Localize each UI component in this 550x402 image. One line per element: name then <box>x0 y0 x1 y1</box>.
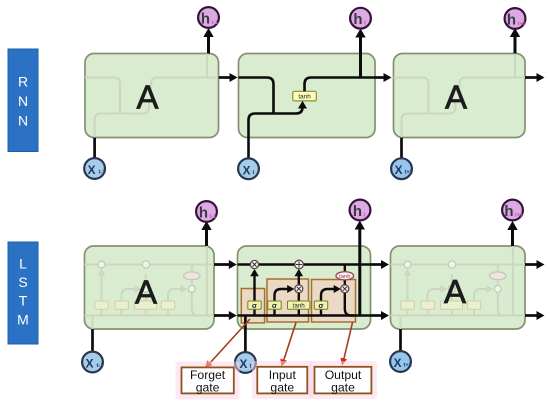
output gate highlight rect <box>312 280 356 323</box>
node X(t) top <box>238 158 259 179</box>
wire input gate sigma branch <box>275 285 295 316</box>
svg-text:T: T <box>19 293 28 309</box>
svg-text:t: t <box>364 21 366 27</box>
wire cell-state input into A5 <box>214 260 237 269</box>
tanh gate box (candidate) <box>288 301 310 309</box>
node h(t-1) top <box>198 7 219 28</box>
RNN cell box A1 (left) <box>85 54 219 138</box>
svg-text:tanh: tanh <box>293 302 306 309</box>
sigma gate box (forget) <box>248 301 261 310</box>
svg-text:t+1: t+1 <box>405 170 413 176</box>
svg-text:X: X <box>394 356 402 370</box>
svg-text:σ: σ <box>318 301 323 310</box>
wire input product up to add node <box>295 269 304 285</box>
svg-text:A: A <box>444 273 466 310</box>
svg-text:A: A <box>445 79 467 116</box>
ghost wiring inside A6 <box>391 246 526 329</box>
svg-text:t+1: t+1 <box>518 21 526 27</box>
pointwise multiply node on cell line (forget) <box>250 260 258 268</box>
input gate highlight rect <box>267 279 309 322</box>
svg-text:h: h <box>201 11 210 28</box>
node h(t+1) bottom <box>502 200 523 221</box>
RNN cell box A2 (middle) <box>239 54 376 138</box>
svg-text:t+1: t+1 <box>515 213 523 219</box>
wire X(t-1) into A4 <box>91 329 94 352</box>
ghost sigma boxes in A4 <box>95 301 175 309</box>
svg-text:t-1: t-1 <box>97 363 104 369</box>
svg-text:X: X <box>88 163 96 177</box>
pointwise add node on cell line <box>295 260 304 269</box>
wire inside A2: tanh output to the right <box>305 78 376 92</box>
wire A4 up to h(t-1) bottom row <box>201 221 211 246</box>
wire A6 up to h(t+1) bottom row <box>507 221 517 246</box>
wire A5 cell state out to A6 <box>371 260 390 269</box>
node X(t-1) top <box>84 158 105 179</box>
node X(t-1) bottom <box>82 352 103 373</box>
wire forget gate branch <box>250 269 259 316</box>
wire A6 cell state out <box>525 260 545 269</box>
RNN cell box A3 (right) <box>394 54 526 138</box>
wire h(t-1) input into A2 <box>219 73 238 82</box>
wire cell state line across A5 <box>238 263 371 266</box>
svg-text:L: L <box>19 256 27 272</box>
LSTM cell box A6 (right) <box>391 246 526 329</box>
svg-text:tanh: tanh <box>298 93 311 100</box>
wire tanh oval to output product <box>344 280 346 285</box>
annotation arrow to Input gate label <box>280 323 296 367</box>
svg-text:X: X <box>239 357 247 371</box>
wire hidden state line across A5 <box>238 314 371 317</box>
Forget gate label box <box>182 367 234 394</box>
svg-text:R: R <box>18 74 28 90</box>
wire A5 hidden out to A6 <box>371 311 390 320</box>
svg-text:X: X <box>243 163 251 177</box>
wire branch up to h(t) bottom row <box>355 221 365 316</box>
ghost wiring inside A1 <box>85 54 219 138</box>
svg-text:X: X <box>395 163 403 177</box>
Output gate label box <box>315 367 372 395</box>
node X(t+1) top <box>391 158 413 179</box>
svg-text:N: N <box>18 93 28 109</box>
ghost sigma boxes in A6 <box>401 301 481 309</box>
wire x(t) entry into A5 <box>244 316 247 353</box>
Input gate label box <box>257 367 307 395</box>
LSTM row label tab <box>8 242 38 344</box>
pink halo behind labels <box>176 361 378 400</box>
svg-text:N: N <box>18 113 28 129</box>
wire inside A2: x(t) path up into tanh <box>249 101 308 158</box>
LSTM cell box A4 (left) <box>85 246 215 329</box>
svg-text:t-1: t-1 <box>210 214 217 220</box>
sigma gate box (output) <box>314 301 327 310</box>
ghost op circles in A6 <box>404 261 506 293</box>
svg-text:X: X <box>86 357 94 371</box>
wire hidden-state input into A5 <box>214 311 237 320</box>
forget gate highlight rect <box>241 289 264 323</box>
node h(t+1) top <box>505 8 526 29</box>
node h(t-1) bottom <box>196 201 217 222</box>
wire A3 up to h(t+1) <box>510 28 520 54</box>
svg-text:gate: gate <box>196 381 220 395</box>
node h(t) bottom <box>350 200 371 221</box>
node h(t) top <box>350 8 371 29</box>
tanh layer box in A2 <box>293 91 317 101</box>
RNN row label tab <box>8 49 38 152</box>
svg-text:t: t <box>253 170 255 176</box>
svg-text:tanh: tanh <box>339 274 350 280</box>
svg-text:M: M <box>17 312 29 328</box>
svg-text:A: A <box>136 79 158 116</box>
sigma gate box (input) <box>268 301 281 310</box>
svg-text:h: h <box>353 203 362 220</box>
wire X(t+1) into A3 <box>400 138 403 159</box>
svg-text:t: t <box>364 213 366 219</box>
svg-text:A: A <box>135 274 157 311</box>
wire A2 output to A3 <box>375 73 392 82</box>
wire cell state down into tanh oval <box>344 265 346 272</box>
ghost wiring inside A4 <box>85 246 246 352</box>
ghost wiring inside A3 <box>394 54 526 138</box>
wire A6 hidden out <box>525 311 545 320</box>
pointwise multiply node (input) <box>295 285 303 293</box>
annotation arrow to Forget gate label <box>205 319 250 368</box>
tanh oval (cell state squashing) <box>336 272 354 280</box>
svg-text:h: h <box>504 203 513 220</box>
wire candidate tanh branch <box>298 293 300 316</box>
annotation arrow to Output gate label <box>340 323 352 366</box>
wire inside A2: previous state path curving down <box>239 78 274 114</box>
ghost op circles in A4 <box>98 261 200 293</box>
wire A1 up to h(t-1) <box>203 28 213 54</box>
wire output gate sigma branch <box>321 285 341 316</box>
wire branch up to h(t) <box>355 29 365 78</box>
svg-text:t: t <box>250 364 252 370</box>
svg-text:t-1: t-1 <box>212 20 219 26</box>
svg-text:h: h <box>507 12 516 29</box>
svg-text:h: h <box>353 11 362 28</box>
pointwise multiply node (output) <box>341 285 349 293</box>
svg-text:gate: gate <box>270 380 294 394</box>
svg-text:gate: gate <box>331 380 355 394</box>
wire output product down to hidden line <box>345 293 354 316</box>
wire X(t-1) into A1 <box>93 138 96 159</box>
LSTM cell box A5 (middle) <box>238 246 371 329</box>
svg-text:t+1: t+1 <box>404 363 412 369</box>
svg-text:S: S <box>18 274 27 290</box>
svg-text:σ: σ <box>272 301 277 310</box>
svg-text:t-1: t-1 <box>99 170 106 176</box>
wire X(t+1) into A6 <box>399 329 402 351</box>
wire A3 output arrow <box>525 73 545 82</box>
svg-text:σ: σ <box>252 301 257 310</box>
node X(t) bottom <box>235 352 256 373</box>
svg-text:h: h <box>199 205 208 222</box>
node X(t+1) bottom <box>390 351 412 372</box>
